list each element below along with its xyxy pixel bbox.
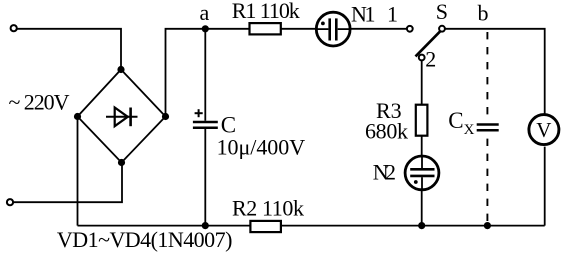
svg-text:N1: N1: [351, 1, 376, 26]
svg-text:a: a: [200, 0, 210, 25]
switch contact 1: [407, 26, 413, 32]
bridge rectifier VD1~VD4 diamond: [78, 70, 166, 163]
svg-text:680k: 680k: [365, 118, 408, 143]
junction dot: Cx branch at bottom bus: [484, 222, 491, 229]
svg-text:2: 2: [425, 46, 436, 71]
switch contact 2: [419, 55, 425, 61]
svg-text:1: 1: [387, 1, 398, 26]
wire: J1 right then down to bridge top vertex: [17, 29, 121, 70]
node a junction dot: [202, 25, 209, 32]
wire: voltmeter down to bottom bus: [544, 147, 546, 226]
neon lamp N1: [316, 12, 350, 46]
switch S pivot contact: [439, 26, 445, 32]
junction: bridge left vertex: [74, 113, 81, 120]
resistor R2: [250, 221, 281, 232]
svg-text:b: b: [478, 1, 489, 26]
terminal J1 (AC input top-left): [11, 25, 17, 31]
junction: bridge bottom vertex: [118, 159, 125, 166]
wire: capacitor C to bottom bus: [204, 129, 206, 226]
voltmeter V: [529, 115, 559, 145]
dashed wire: Cx down to bottom bus (lower): [486, 139, 488, 226]
wire: bridge right vertex up then right to R1: [166, 29, 250, 117]
svg-text:VD1~VD4(1N4007): VD1~VD4(1N4007): [57, 227, 233, 252]
switch S arm: [416, 31, 441, 56]
junction: bridge right vertex: [162, 113, 169, 120]
wire: node a down to capacitor C top plate: [204, 29, 206, 121]
wire: switch pivot right then down to voltmeter: [445, 29, 545, 114]
junction dot: capacitor C branch at bottom bus: [202, 222, 209, 229]
resistor R3: [416, 105, 428, 136]
polarity + of capacitor C: [195, 109, 203, 117]
svg-text:N2: N2: [373, 160, 396, 185]
neon lamp N2: [405, 156, 439, 190]
svg-text:R2 110k: R2 110k: [232, 196, 304, 221]
junction: bridge top vertex: [117, 66, 124, 73]
terminal J2 (AC input bottom-left): [7, 199, 13, 205]
dashed wire: node b down to Cx (upper): [486, 32, 488, 121]
resistor R1: [250, 23, 281, 34]
capacitor C plates: [193, 122, 218, 128]
svg-text:~ 220V: ~ 220V: [9, 90, 70, 115]
wire: bridge left vertex down to bottom bus: [77, 117, 79, 226]
wire: R1 to neon lamp N1: [281, 28, 317, 30]
diode symbol inside bridge: [106, 108, 138, 127]
junction dot: N2 branch at bottom bus: [418, 222, 425, 229]
wire: N2 to bottom bus: [421, 190, 423, 226]
wire: contact 2 down to R3: [421, 61, 423, 105]
svg-text:R1 110k: R1 110k: [232, 0, 300, 23]
svg-text:V: V: [536, 118, 551, 142]
bottom bus wire right segment: [281, 225, 545, 227]
svg-text:10μ/400V: 10μ/400V: [217, 134, 306, 159]
wire: N1 to switch contact 1: [350, 28, 407, 30]
wire: R3 to neon lamp N2: [421, 136, 423, 156]
wire: J2 right then up to bridge bottom vertex: [14, 163, 122, 203]
bottom bus wire left segment: [78, 225, 251, 227]
svg-text:S: S: [436, 0, 448, 24]
capacitor Cx plates: [477, 125, 499, 131]
